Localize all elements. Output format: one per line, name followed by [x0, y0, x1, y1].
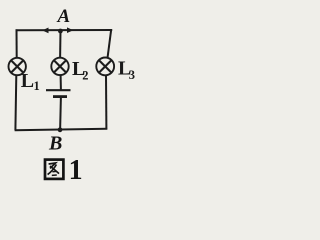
- junction dot at node A: [58, 29, 63, 34]
- svg-text:2: 2: [82, 69, 88, 83]
- battery cell: long plate (top): [46, 89, 71, 91]
- svg-text:A: A: [57, 6, 71, 27]
- wire below L1 to bottom rail: [14, 75, 17, 130]
- wire below L3 to bottom rail: [105, 75, 107, 129]
- svg-text:1: 1: [69, 155, 83, 186]
- battery cell: short plate (bottom): [53, 95, 67, 98]
- lamp L2: [51, 58, 68, 75]
- svg-text:1: 1: [34, 79, 40, 93]
- wire bottom horizontal B-rail: [15, 129, 108, 131]
- svg-text:L: L: [21, 70, 34, 92]
- svg-text:3: 3: [129, 68, 135, 82]
- caption glyph "tu" (figure) drawn as vector: [45, 160, 63, 179]
- wire top-left drop to L1: [16, 29, 18, 58]
- junction dot at node B: [58, 127, 63, 132]
- wire L2 down to battery: [60, 75, 62, 90]
- current arrow pointing right on top rail: [67, 27, 73, 33]
- wire node A down to L2: [59, 31, 61, 59]
- current arrow pointing left on top rail: [42, 28, 48, 34]
- wire top horizontal A-rail: [16, 29, 113, 31]
- svg-text:B: B: [48, 133, 62, 155]
- lamp L1: [9, 58, 26, 75]
- lamp L3: [96, 58, 114, 76]
- wire top-right drop to L3: [108, 29, 112, 58]
- wire battery down to node B: [59, 97, 62, 131]
